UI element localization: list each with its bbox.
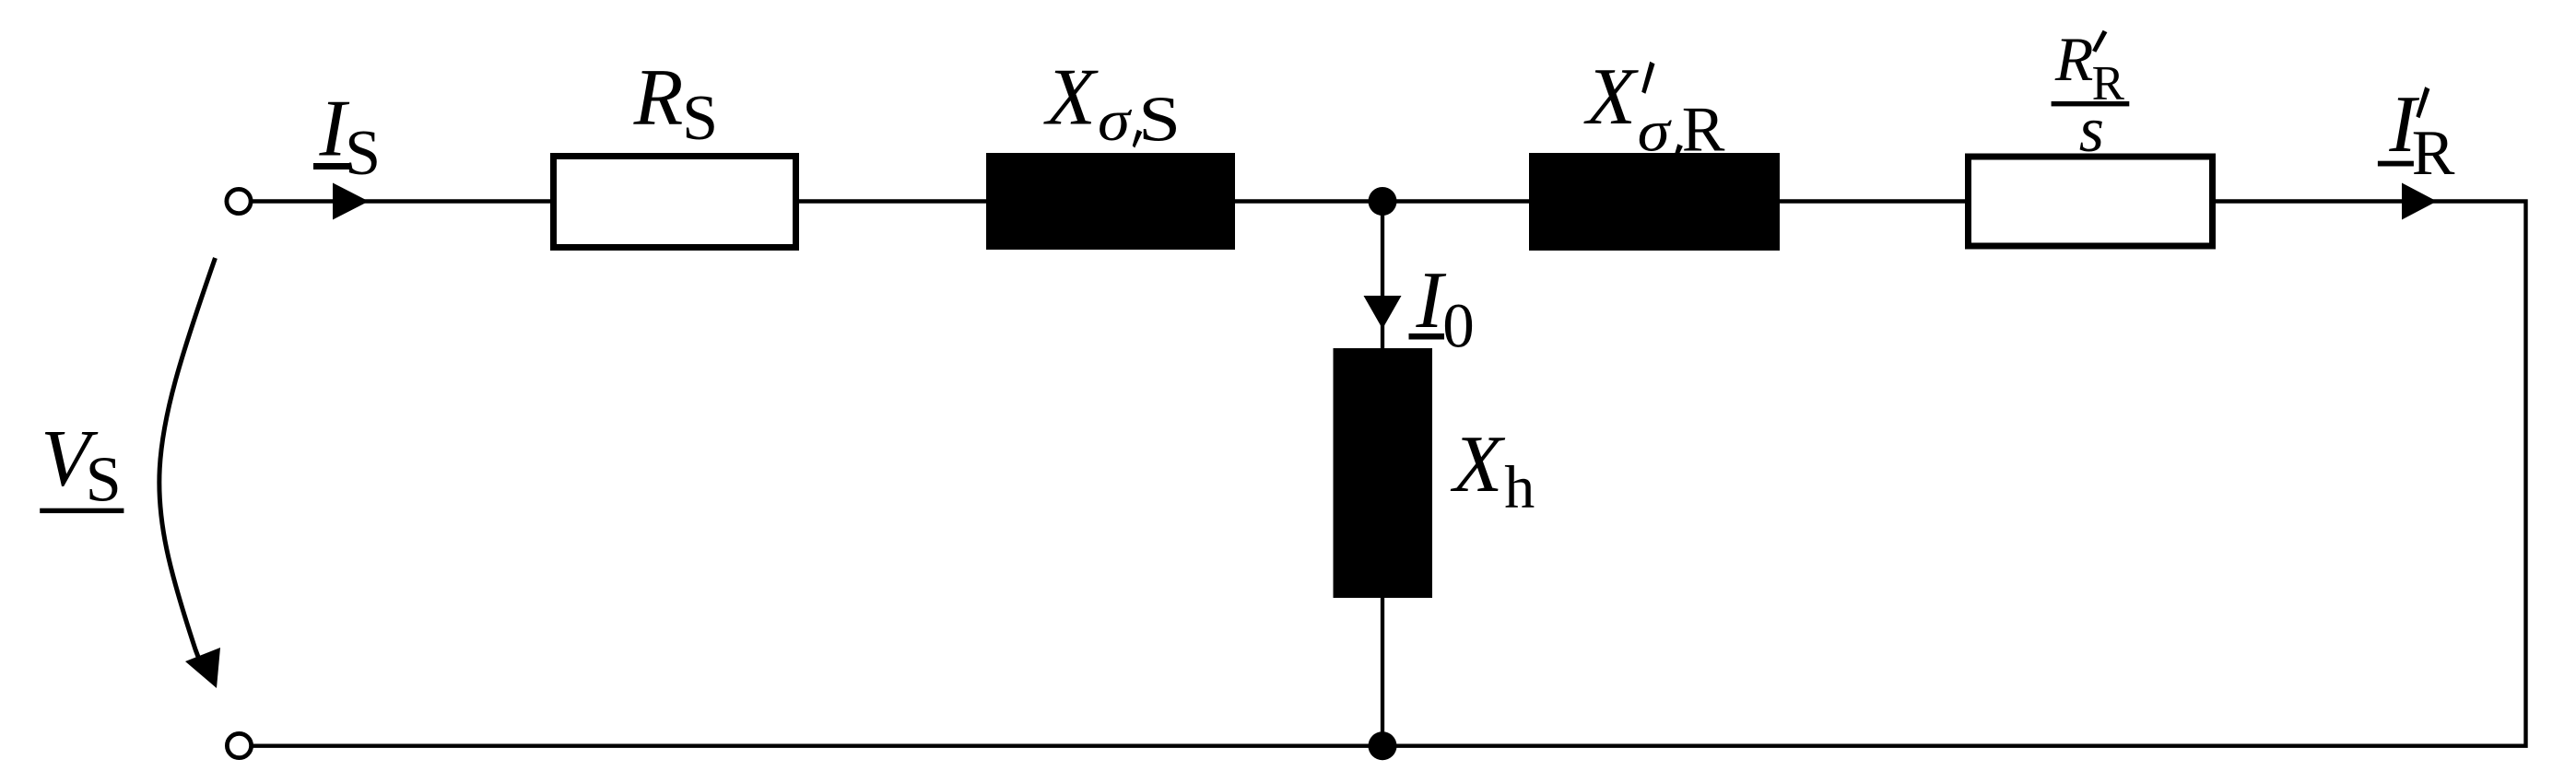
svg-text:S: S xyxy=(345,118,381,189)
svg-text:R: R xyxy=(2412,118,2455,189)
svg-text:σ: σ xyxy=(1638,99,1673,163)
svg-text:X: X xyxy=(1043,53,1099,143)
svg-text:h: h xyxy=(1504,454,1535,521)
svg-text:R: R xyxy=(633,53,684,143)
svg-text:S: S xyxy=(682,83,718,154)
svg-text:S: S xyxy=(86,445,122,516)
svg-text:X: X xyxy=(1583,53,1639,142)
svg-text:X: X xyxy=(1451,420,1506,509)
svg-text:S: S xyxy=(1138,85,1181,156)
svg-text:R: R xyxy=(2054,24,2094,94)
svg-text:σ: σ xyxy=(1098,88,1133,153)
svg-text:R: R xyxy=(1682,94,1725,165)
svg-text:s: s xyxy=(2079,95,2104,166)
svg-text:0: 0 xyxy=(1442,291,1475,361)
